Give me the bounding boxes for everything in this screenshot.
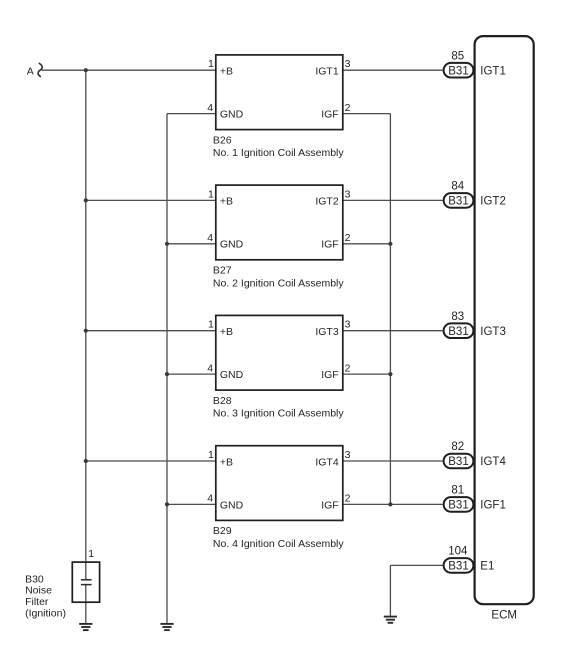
svg-text:104: 104	[448, 546, 468, 558]
svg-text:2: 2	[345, 362, 351, 374]
svg-text:IGT1: IGT1	[480, 65, 506, 77]
svg-text:4: 4	[207, 102, 213, 114]
svg-text:82: 82	[451, 441, 464, 453]
svg-text:84: 84	[451, 181, 464, 193]
svg-text:3: 3	[345, 188, 351, 200]
svg-text:IGF: IGF	[321, 499, 339, 511]
svg-text:4: 4	[207, 232, 213, 244]
svg-text:81: 81	[451, 485, 464, 497]
svg-text:+B: +B	[220, 456, 233, 468]
svg-text:B31: B31	[448, 326, 468, 338]
svg-text:4: 4	[207, 493, 213, 505]
svg-text:4: 4	[207, 362, 213, 374]
svg-text:Noise: Noise	[25, 585, 52, 597]
svg-text:GND: GND	[220, 369, 244, 381]
svg-text:IGF: IGF	[321, 239, 339, 251]
svg-text:No. 1 Ignition Coil Assembly: No. 1 Ignition Coil Assembly	[213, 147, 344, 159]
svg-text:B31: B31	[448, 456, 468, 468]
svg-text:2: 2	[345, 493, 351, 505]
svg-text:+B: +B	[220, 196, 233, 208]
svg-text:No. 4 Ignition Coil Assembly: No. 4 Ignition Coil Assembly	[213, 538, 344, 550]
svg-text:IGF: IGF	[321, 369, 339, 381]
svg-text:GND: GND	[220, 499, 244, 511]
svg-text:1: 1	[208, 449, 214, 461]
svg-text:1: 1	[88, 548, 94, 560]
svg-text:IGT3: IGT3	[480, 326, 506, 338]
svg-text:B26: B26	[213, 134, 232, 146]
svg-text:B31: B31	[448, 196, 468, 208]
svg-text:B28: B28	[213, 395, 232, 407]
svg-text:1: 1	[208, 188, 214, 200]
svg-text:B31: B31	[448, 561, 468, 573]
svg-text:IGT1: IGT1	[315, 66, 338, 78]
svg-text:GND: GND	[220, 109, 244, 121]
svg-text:B31: B31	[448, 500, 468, 512]
svg-text:+B: +B	[220, 66, 233, 78]
svg-text:(Ignition): (Ignition)	[25, 607, 66, 619]
svg-text:ECM: ECM	[491, 610, 517, 622]
svg-text:IGT4: IGT4	[315, 456, 338, 468]
svg-text:IGT4: IGT4	[480, 456, 506, 468]
svg-text:2: 2	[345, 102, 351, 114]
svg-text:IGT2: IGT2	[480, 196, 506, 208]
svg-text:B29: B29	[213, 525, 232, 537]
svg-text:2: 2	[345, 232, 351, 244]
svg-text:85: 85	[451, 50, 464, 62]
svg-text:IGF1: IGF1	[480, 500, 506, 512]
svg-text:3: 3	[345, 319, 351, 331]
svg-text:No. 3 Ignition Coil Assembly: No. 3 Ignition Coil Assembly	[213, 408, 344, 420]
svg-text:IGT2: IGT2	[315, 196, 338, 208]
svg-text:1: 1	[208, 58, 214, 70]
svg-text:3: 3	[345, 58, 351, 70]
svg-text:Filter: Filter	[25, 596, 49, 608]
svg-text:+B: +B	[220, 326, 233, 338]
svg-text:GND: GND	[220, 239, 244, 251]
svg-text:IGF: IGF	[321, 109, 339, 121]
svg-text:B31: B31	[448, 65, 468, 77]
svg-text:IGT3: IGT3	[315, 326, 338, 338]
svg-text:1: 1	[208, 319, 214, 331]
svg-text:3: 3	[345, 449, 351, 461]
svg-text:B30: B30	[25, 573, 44, 585]
svg-text:83: 83	[451, 311, 464, 323]
svg-text:B27: B27	[213, 265, 232, 277]
svg-text:No. 2 Ignition Coil Assembly: No. 2 Ignition Coil Assembly	[213, 277, 344, 289]
svg-text:E1: E1	[480, 561, 494, 573]
svg-text:A: A	[27, 65, 34, 77]
